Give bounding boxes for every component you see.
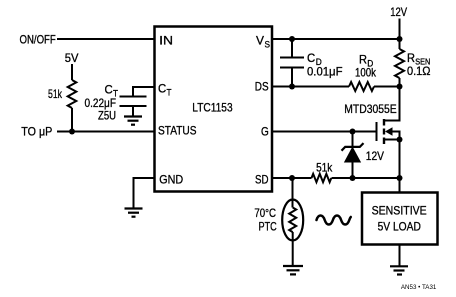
svg-text:51k: 51k [48,87,63,101]
wire SD node down to PTC [292,178,294,208]
svg-text:LTC1153: LTC1153 [192,101,233,115]
transistor Q1 body arrow [385,127,393,135]
node SD/PTC junction [289,175,295,181]
wire RSEN bottom to DS node [399,78,401,87]
svg-text:51k: 51k [316,161,333,175]
svg-text:IN: IN [159,34,173,48]
svg-text:70°C: 70°C [254,206,276,220]
svg-text:S: S [265,39,271,49]
svg-text:T: T [167,87,172,97]
svg-text:100k: 100k [355,66,377,80]
wire VS pin to 12V rail [272,38,400,40]
node SD/source junction [397,175,403,181]
wire 51k to source line [332,177,400,179]
resistor R2 51k [312,174,332,182]
wire drain node down to MOSFET drain [385,87,400,121]
zener diode D1 top lead [352,132,354,147]
svg-text:5V: 5V [65,51,79,65]
capacitor CD plates [280,57,304,59]
node STATUS/51k junction [69,129,75,135]
load box SENSITIVE 5V LOAD [362,193,438,245]
node gate/zener junction [350,129,356,135]
wire 5V lead to resistor R1 top [71,64,73,80]
thermistor RT1 PTC body [282,200,303,241]
wire ON/OFF to IN pin [57,38,154,40]
wire GND pin to ground [134,178,155,208]
svg-text:0.01μF: 0.01μF [307,65,343,79]
svg-text:SD: SD [255,172,269,186]
wire R1 bottom to STATUS node [71,108,73,132]
svg-text:0.1Ω: 0.1Ω [407,64,431,78]
transistor Q1 source lead [385,139,400,141]
wire SD pin to 51k [272,177,312,179]
resistor RSEN 0.1 ohm [395,49,404,78]
thermistor RT1 inner resistor [289,208,296,233]
svg-text:PTC: PTC [259,219,277,233]
node source/body junction [397,137,403,143]
zener diode D1 bottom lead [352,162,354,179]
thermal coupling squiggle [317,216,351,225]
wire CT cap to ground [132,106,134,116]
svg-text:G: G [261,125,269,139]
wire 12V supply lead [399,19,401,50]
wire source down to SD line [399,140,401,193]
svg-text:DS: DS [255,80,269,94]
zener diode D1 triangle [345,148,361,163]
svg-text:MTD3055E: MTD3055E [344,102,396,116]
node DS/CD junction [289,84,295,90]
op-amp U1 LTC1153 box [155,27,273,192]
resistor RD 100k [349,82,374,91]
svg-text:AN53 • TA31: AN53 • TA31 [401,284,437,291]
svg-text:STATUS: STATUS [158,124,197,138]
wire PTC to ground [292,232,294,265]
svg-text:V: V [256,34,264,48]
ground (load) [390,266,408,274]
wire RD to drain node [374,86,400,88]
wire G pin to MOSFET gate [272,131,376,133]
wire DS pin to RD [272,86,349,88]
node DS/RSEN junction [397,84,403,90]
wire TO uP to STATUS pin [57,131,154,133]
svg-text:TO μP: TO μP [21,125,52,139]
capacitor CT plates [120,96,147,98]
svg-text:C: C [307,51,316,65]
svg-text:R: R [407,51,415,65]
ground (CT capacitor) [124,117,142,125]
wire CD bottom to DS line [291,68,293,87]
svg-text:R: R [359,53,367,67]
transistor Q1 channel dashes [383,119,385,144]
svg-text:SENSITIVE: SENSITIVE [372,203,427,217]
svg-text:ON/OFF: ON/OFF [20,33,56,47]
wire CT pin to capacitor CT [133,87,154,96]
svg-text:GND: GND [159,173,183,187]
transistor Q1 MTD3055E gate bar [376,122,378,141]
svg-text:12V: 12V [390,5,407,19]
svg-text:C: C [105,83,114,97]
resistor R1 51k pull-up [68,80,77,108]
svg-text:C: C [158,82,167,96]
svg-text:12V: 12V [366,149,384,163]
wire VS node to capacitor CD [291,39,293,57]
wire load box to ground [399,245,401,266]
node dots [69,36,403,181]
transistor Q1 body lead [392,132,400,140]
zener diode D1 cathode bar [342,143,364,151]
svg-text:Z5U: Z5U [98,109,116,123]
svg-text:5V LOAD: 5V LOAD [378,220,422,234]
node VS/12V junction [397,36,403,42]
node zener/SD junction [350,175,356,181]
ground (GND pin) [125,209,143,217]
node VS/CD junction [289,36,295,42]
ground (PTC) [283,266,303,274]
